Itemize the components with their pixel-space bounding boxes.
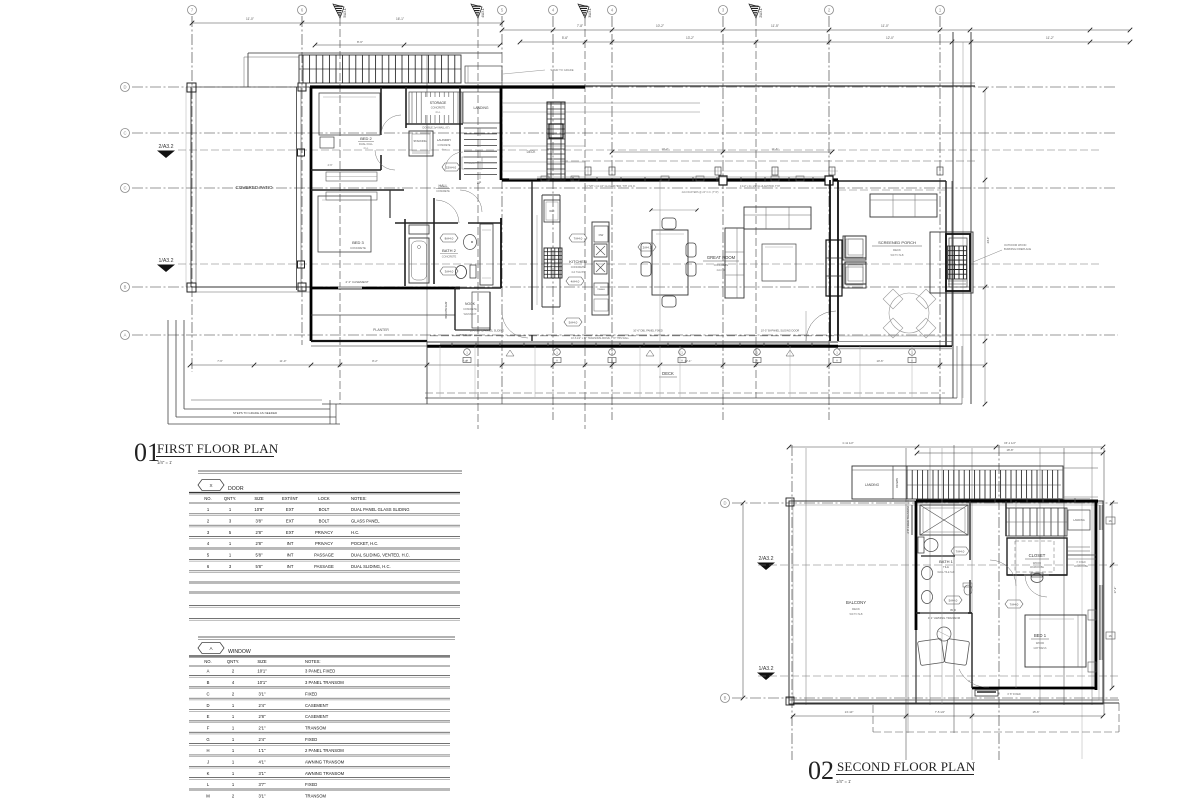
- svg-text:FIRST FLOOR PLAN: FIRST FLOOR PLAN: [157, 441, 279, 456]
- sf interior stair landing: [1068, 510, 1090, 530]
- svg-text:WARDROBE: WARDROBE: [1074, 565, 1088, 568]
- porch sofa: [870, 194, 937, 217]
- window schedule table: [198, 636, 455, 638]
- svg-text:16'-0 5/8" BI-PANEL SLIDING: 16'-0 5/8" BI-PANEL SLIDING: [470, 329, 504, 333]
- bed2 nightstand: [320, 137, 334, 148]
- sf west window strip: [911, 505, 913, 535]
- landing room: [459, 87, 461, 180]
- bath2 north wall: [395, 222, 458, 224]
- svg-text:D: D: [723, 501, 726, 506]
- svg-text:EXT: EXT: [286, 507, 295, 512]
- svg-text:K: K: [207, 771, 210, 776]
- svg-text:4'1": 4'1": [259, 760, 266, 765]
- sf bath sinks: [922, 567, 933, 580]
- svg-text:BALCONY: BALCONY: [846, 600, 866, 605]
- stacking laundry: [409, 131, 433, 156]
- svg-text:CONCRETE: CONCRETE: [431, 106, 446, 110]
- svg-text:13'-10": 13'-10": [845, 710, 854, 714]
- patio post grid6 bottom: [298, 283, 306, 291]
- window door tags south: [464, 349, 471, 356]
- svg-text:EXT/INT: EXT/INT: [282, 496, 298, 501]
- svg-text:7'-0": 7'-0": [462, 359, 468, 363]
- svg-text:BATH 1: BATH 1: [939, 559, 953, 564]
- svg-text:C: C: [123, 131, 126, 136]
- svg-text:15/A4.0: 15/A4.0: [446, 165, 457, 169]
- sf bath hex 7: [951, 547, 969, 555]
- dimension line top long: [520, 41, 1130, 43]
- svg-text:BOLT: BOLT: [319, 507, 330, 512]
- svg-text:A: A: [124, 333, 127, 338]
- sf balcony posts: [786, 498, 794, 506]
- sf left dim line: [742, 503, 744, 698]
- svg-text:DOWN: DOWN: [895, 478, 899, 488]
- vertical grid line 4.5: [552, 16, 554, 420]
- svg-text:D: D: [123, 85, 126, 90]
- svg-text:16: 16: [1108, 519, 1112, 523]
- svg-text:5'8": 5'8": [256, 564, 263, 569]
- svg-text:SIZE: SIZE: [257, 659, 267, 664]
- svg-text:PASSAGE: PASSAGE: [314, 564, 334, 569]
- svg-text:10'-6": 10'-6": [876, 359, 883, 363]
- svg-text:02: 02: [808, 756, 834, 785]
- svg-text:BED 2: BED 2: [360, 136, 372, 141]
- svg-text:STACKING: STACKING: [413, 139, 426, 143]
- svg-text:5'-6": 5'-6": [562, 36, 568, 40]
- svg-text:FIXED: FIXED: [305, 737, 317, 742]
- svg-text:3'1": 3'1": [259, 794, 266, 799]
- storage stair hatch: [412, 92, 458, 124]
- planter strip: [311, 314, 455, 316]
- sf stair wall: [1005, 501, 1007, 536]
- section flag 2/A3.1: [749, 4, 760, 18]
- sf bottom door: [975, 690, 998, 696]
- svg-text:CONCRETE: CONCRETE: [442, 255, 457, 259]
- vertical grid line 6: [301, 16, 303, 345]
- south wall window mullions: [440, 343, 830, 345]
- steps to grade: [167, 320, 169, 424]
- svg-text:NOTES:: NOTES:: [351, 496, 367, 501]
- sf shower: [920, 505, 968, 535]
- svg-text:8'-2": 8'-2": [372, 359, 378, 363]
- svg-text:LAUNDRY: LAUNDRY: [437, 138, 451, 142]
- svg-text:W D: W D: [950, 608, 957, 612]
- svg-text:3'1": 3'1": [259, 771, 266, 776]
- svg-text:B: B: [724, 696, 727, 701]
- svg-text:11'-5": 11'-5": [771, 24, 779, 28]
- svg-text:TRANSOM: TRANSOM: [305, 794, 326, 799]
- svg-text:2' 8" FIXED TRANSOM: 2' 8" FIXED TRANSOM: [906, 506, 910, 533]
- svg-text:B: B: [124, 285, 127, 290]
- svg-text:DUAL PANEL GLASS SLIDING: DUAL PANEL GLASS SLIDING: [351, 507, 410, 512]
- svg-text:INT: INT: [287, 541, 294, 546]
- svg-text:16'-1": 16'-1": [396, 17, 404, 21]
- svg-text:NO.: NO.: [204, 496, 211, 501]
- door schedule table: [198, 470, 462, 472]
- sf bath partition: [921, 555, 955, 557]
- wall bed3 north: [311, 189, 404, 191]
- sectional sofa horizontal: [744, 207, 811, 229]
- post grid3: [719, 176, 727, 185]
- svg-text:WINDOW SEAT: WINDOW SEAT: [445, 301, 448, 319]
- svg-text:DECK: DECK: [662, 371, 674, 376]
- svg-text:WARDROBE: WARDROBE: [1030, 566, 1044, 569]
- great room south wall: [427, 345, 838, 348]
- svg-text:A: A: [681, 359, 683, 363]
- svg-text:BED 1: BED 1: [1034, 633, 1047, 638]
- svg-text:CLOSET: CLOSET: [1029, 553, 1046, 558]
- svg-text:13'-2": 13'-2": [686, 36, 694, 40]
- north wall left wing: [310, 85, 585, 88]
- sf sitting east wall: [971, 613, 973, 688]
- svg-text:NOOK: NOOK: [465, 302, 476, 306]
- vertical grid line 4: [611, 16, 613, 420]
- svg-text:11'-0": 11'-0": [246, 17, 254, 21]
- patio post top: [187, 83, 196, 92]
- svg-text:7/A4.0: 7/A4.0: [956, 549, 965, 553]
- svg-text:4/A4.0: 4/A4.0: [571, 279, 580, 283]
- svg-text:WOOD: WOOD: [1036, 641, 1044, 645]
- svg-text:LANDING: LANDING: [1073, 518, 1085, 522]
- svg-text:REF: REF: [549, 209, 555, 213]
- coffee table: [762, 244, 796, 281]
- svg-text:11'-0": 11'-0": [881, 24, 889, 28]
- sf top dimension line 2: [917, 452, 1103, 454]
- svg-text:2/A3.2: 2/A3.2: [759, 556, 774, 562]
- svg-text:M: M: [206, 794, 210, 799]
- svg-text:POCKET, H.C.: POCKET, H.C.: [351, 541, 378, 546]
- svg-text:7/A4.0: 7/A4.0: [574, 236, 583, 240]
- interior stair down: [464, 127, 497, 129]
- svg-text:3/A3.1: 3/A3.1: [588, 8, 592, 17]
- svg-text:17'-2": 17'-2": [1113, 587, 1117, 594]
- bath2 hex key 8: [440, 234, 458, 242]
- exterior stair hatch band: [299, 55, 461, 83]
- svg-text:2'8": 2'8": [259, 714, 266, 719]
- bath2 vanity: [480, 224, 493, 285]
- deck rail posts row: [585, 167, 591, 175]
- sf bath toilet: [918, 537, 924, 553]
- svg-text:A: A: [836, 359, 838, 363]
- bath2 hex key 3: [440, 267, 458, 275]
- svg-text:WINDOW: WINDOW: [228, 649, 251, 655]
- hall hex key: [442, 163, 460, 171]
- svg-text:A: A: [207, 669, 210, 674]
- svg-text:F: F: [207, 725, 210, 730]
- svg-text:SECOND FLOOR PLAN: SECOND FLOOR PLAN: [837, 759, 976, 774]
- svg-text:NO.: NO.: [204, 659, 211, 664]
- sf closet: [1007, 538, 1067, 575]
- svg-text:WAINSCOT: WAINSCOT: [464, 313, 477, 316]
- porch north wall: [838, 180, 946, 182]
- svg-text:QNTY.: QNTY.: [224, 496, 236, 501]
- patio post grid6 mid1: [298, 149, 305, 156]
- svg-text:SHELF: SHELF: [468, 163, 476, 165]
- svg-text:5/A4.0: 5/A4.0: [949, 598, 958, 602]
- sf extra verticals: [941, 448, 943, 705]
- svg-text:GREAT ROOM: GREAT ROOM: [707, 255, 736, 260]
- svg-text:CONCRETE: CONCRETE: [438, 145, 451, 147]
- sf right dim line: [1111, 503, 1113, 688]
- svg-text:LOCK: LOCK: [318, 496, 330, 501]
- svg-text:DUAL FULL: DUAL FULL: [359, 142, 373, 146]
- porch south wall: [838, 340, 952, 342]
- bed3 cabinet strip: [326, 192, 377, 200]
- svg-text:BED 3: BED 3: [352, 240, 364, 245]
- svg-text:FIXED: FIXED: [305, 782, 317, 787]
- extension line dining: [659, 180, 661, 341]
- sf closet door arc: [1025, 575, 1047, 597]
- svg-text:STORAGE: STORAGE: [430, 101, 447, 105]
- deck south edge: [425, 392, 945, 394]
- deck east edge: [952, 32, 954, 398]
- sf closet fixture: [1031, 574, 1043, 583]
- sf top dimension line: [789, 446, 1103, 448]
- post grid2: [825, 176, 833, 185]
- svg-text:1/A3.2: 1/A3.2: [759, 666, 774, 672]
- sf roof dashed outline: [873, 731, 1119, 733]
- svg-text:CONCRETE: CONCRETE: [571, 265, 586, 269]
- wall bath2 west: [404, 219, 406, 286]
- sf building north wall: [916, 500, 1098, 503]
- sf horizontal grid B: [732, 697, 1118, 699]
- svg-text:4'-6": 4'-6": [328, 164, 333, 167]
- svg-text:5/A4.0: 5/A4.0: [569, 320, 578, 324]
- svg-text:1/4" = 1': 1/4" = 1': [157, 460, 172, 465]
- svg-text:E: E: [207, 714, 210, 719]
- patio post bottom: [187, 283, 196, 292]
- svg-text:DECK: DECK: [527, 150, 537, 154]
- hall door arc: [375, 150, 395, 170]
- outdoor fireplace: [930, 232, 973, 293]
- deck west edge: [426, 341, 428, 404]
- svg-text:AWNING TRANSOM: AWNING TRANSOM: [305, 760, 345, 765]
- dimension line below full: [190, 364, 985, 366]
- exterior stair enclosure outline: [248, 52, 502, 54]
- svg-text:7'-5 1/2": 7'-5 1/2": [935, 710, 945, 714]
- sf interior stair: [1006, 508, 1067, 536]
- svg-text:PASSAGE: PASSAGE: [314, 553, 334, 558]
- svg-text:MATTRESS: MATTRESS: [1034, 647, 1047, 650]
- svg-text:INT: INT: [287, 553, 294, 558]
- trash: [594, 283, 608, 295]
- svg-text:4x10 RAFTERS @ 24" O.C. (TYP): 4x10 RAFTERS @ 24" O.C. (TYP): [682, 191, 719, 194]
- svg-text:5/A3.1: 5/A3.1: [343, 8, 347, 17]
- svg-text:10'-5" BI-PANEL SLIDING DOOR: 10'-5" BI-PANEL SLIDING DOOR: [761, 329, 800, 333]
- horizontal grid line D: [132, 86, 1115, 88]
- sf band rail extension: [1063, 467, 1098, 469]
- svg-text:7'-6": 7'-6": [217, 359, 223, 363]
- svg-text:X: X: [209, 483, 212, 488]
- svg-text:FIXED: FIXED: [305, 691, 317, 696]
- svg-text:A: A: [611, 359, 613, 363]
- svg-text:4'-7 5/8" x 11 1/4" GLULAM HDR: 4'-7 5/8" x 11 1/4" GLULAM HDR, TYP U.N.…: [584, 185, 635, 188]
- bath2 east wall: [500, 218, 502, 288]
- svg-text:5'8": 5'8": [256, 553, 263, 558]
- svg-text:1'1": 1'1": [259, 748, 266, 753]
- svg-text:HALL: HALL: [439, 184, 448, 188]
- deck north edge: [585, 85, 975, 87]
- svg-text:DUAL SLIDING, VENTED, H.C.: DUAL SLIDING, VENTED, H.C.: [351, 553, 410, 558]
- vertical grid line 2: [828, 16, 830, 420]
- hall south door arc: [502, 312, 528, 338]
- svg-text:SIZE: SIZE: [254, 496, 264, 501]
- extension line kitchen west wall: [531, 181, 533, 310]
- sf horizontal grid D: [732, 502, 1118, 504]
- patio post grid6 mid2: [298, 261, 305, 268]
- svg-text:2/A3.2: 2/A3.2: [159, 144, 174, 150]
- svg-text:10'-6 1/2" x 11" TRANSOMS ABOV: 10'-6 1/2" x 11" TRANSOMS ABOVE, TYP THI…: [571, 337, 630, 340]
- sf bed 1: [1025, 615, 1086, 667]
- great room south wall sill: [427, 340, 838, 342]
- svg-text:STEPS TO GRADE AS NEEDED: STEPS TO GRADE AS NEEDED: [233, 411, 278, 415]
- svg-text:C: C: [206, 691, 209, 696]
- svg-text:4' 4" CASEMENT: 4' 4" CASEMENT: [345, 280, 368, 284]
- bath2 door arc: [436, 200, 459, 223]
- bed 3 room: [318, 196, 371, 252]
- svg-text:CASEMENT: CASEMENT: [305, 714, 329, 719]
- north wall window tags: [541, 176, 549, 181]
- svg-text:4/A3.1: 4/A3.1: [481, 8, 485, 17]
- fridge: [544, 200, 560, 222]
- svg-text:BURNING FIREPLACE: BURNING FIREPLACE: [1004, 247, 1031, 251]
- south roof dashed: [430, 335, 838, 337]
- svg-text:A: A: [556, 359, 558, 363]
- sf balcony chairs: [917, 638, 944, 665]
- dimension line top left: [192, 22, 502, 24]
- porch screen dashes: [838, 335, 952, 337]
- svg-text:CONCRETE: CONCRETE: [463, 308, 477, 311]
- svg-text:G: G: [206, 737, 209, 742]
- svg-text:2'1": 2'1": [259, 725, 266, 730]
- sf balcony outline: [789, 501, 1103, 704]
- svg-text:DUAL SLIDING, H.C.: DUAL SLIDING, H.C.: [351, 564, 391, 569]
- door schedule empty rows: [189, 581, 460, 583]
- vertical line A: [426, 55, 428, 404]
- svg-text:2'4": 2'4": [259, 703, 266, 708]
- deck stair element: [547, 102, 565, 180]
- svg-text:C: C: [123, 186, 126, 191]
- svg-text:3 PANEL FIXED: 3 PANEL FIXED: [305, 669, 335, 674]
- svg-text:2'8": 2'8": [256, 530, 263, 535]
- vertical grid line 1: [939, 16, 941, 404]
- closet wall: [380, 87, 382, 135]
- media cabinet: [826, 240, 842, 296]
- sf building east wall: [1095, 501, 1098, 690]
- svg-text:2'4": 2'4": [259, 737, 266, 742]
- bathtub shelf: [409, 225, 429, 234]
- svg-text:4 t.o.: 4 t.o.: [363, 147, 369, 150]
- svg-text:4x4 TILE BS: 4x4 TILE BS: [571, 271, 585, 274]
- sf top stair band: [852, 466, 1063, 499]
- sink 1: [594, 244, 607, 257]
- svg-text:LANDING: LANDING: [865, 483, 880, 487]
- kitchen tile feature: [544, 248, 562, 278]
- svg-text:EXT: EXT: [286, 530, 295, 535]
- horizontal grid line A: [132, 334, 1118, 336]
- svg-text:AWNING TRANSOM: AWNING TRANSOM: [305, 771, 345, 776]
- bed2 cabinet strip: [326, 172, 377, 181]
- svg-text:SCREENED PORCH: SCREENED PORCH: [878, 240, 916, 245]
- sf wc: [964, 585, 972, 595]
- svg-text:8'-6": 8'-6": [357, 40, 363, 44]
- svg-text:H: H: [206, 748, 209, 753]
- vertical grid line 7: [191, 16, 193, 372]
- bath2 sink: [464, 235, 477, 250]
- svg-text:11'-2": 11'-2": [1046, 36, 1054, 40]
- deck extension lines: [439, 346, 441, 397]
- great room east wall: [829, 180, 831, 341]
- roof dashed line great room: [560, 160, 975, 162]
- great room door arc SE: [806, 311, 836, 341]
- svg-text:CASEMENT: CASEMENT: [305, 703, 329, 708]
- svg-text:NOTES:: NOTES:: [305, 659, 321, 664]
- svg-text:12'-1": 12'-1": [684, 359, 691, 363]
- sf hall door arc: [990, 560, 1016, 586]
- svg-text:2'8": 2'8": [256, 541, 263, 546]
- svg-text:BOLT: BOLT: [319, 518, 330, 523]
- svg-text:WD TO SLB: WD TO SLB: [890, 254, 903, 257]
- svg-text:TRASH: TRASH: [597, 288, 605, 291]
- svg-text:3 PANEL TRANSOM: 3 PANEL TRANSOM: [305, 680, 344, 685]
- svg-text:LANDING: LANDING: [473, 106, 488, 110]
- section flag 4/A3.1: [471, 4, 482, 18]
- interior dim lines great room: [612, 151, 832, 153]
- wall nook: [454, 288, 456, 330]
- dining chairs: [662, 218, 676, 229]
- vertical grid line 5: [501, 16, 503, 404]
- svg-text:CONCRETE: CONCRETE: [714, 263, 729, 267]
- svg-text:10'-6" DBL PANEL FIXED: 10'-6" DBL PANEL FIXED: [633, 329, 663, 333]
- svg-text:CONCRETE: CONCRETE: [436, 190, 450, 193]
- patio east edge: [296, 87, 298, 290]
- svg-text:DW: DW: [599, 233, 604, 237]
- great room north wall: [502, 178, 838, 181]
- svg-text:3'1": 3'1": [259, 691, 266, 696]
- svg-text:7/A4.0: 7/A4.0: [1010, 602, 1019, 606]
- svg-text:QNTY.: QNTY.: [227, 659, 239, 664]
- section flag 5/A3.1: [333, 4, 344, 18]
- svg-text:7' 7" FIXED: 7' 7" FIXED: [459, 333, 473, 337]
- svg-text:DECK: DECK: [893, 248, 901, 252]
- porch chair 1: [843, 236, 866, 260]
- sf hex keys: [944, 596, 962, 604]
- svg-text:8/A4.0: 8/A4.0: [445, 236, 454, 240]
- svg-text:3'8": 3'8": [256, 518, 263, 523]
- sf vertical grid lines: [791, 445, 793, 760]
- svg-text:2/A4.1: 2/A4.1: [643, 245, 652, 249]
- bathtub: [409, 238, 429, 283]
- svg-text:GLASS PANEL: GLASS PANEL: [351, 518, 380, 523]
- sf bottom balcony edge: [789, 699, 1119, 701]
- svg-text:KITCHEN: KITCHEN: [569, 259, 587, 264]
- outdoor fireplace leader: [973, 250, 1002, 262]
- horizontal grid line C5: [132, 132, 1115, 134]
- svg-text:2 PANEL TRANSOM: 2 PANEL TRANSOM: [305, 748, 344, 753]
- svg-text:OUTDOOR WOOD: OUTDOOR WOOD: [1004, 243, 1026, 247]
- storage room: [405, 87, 407, 128]
- svg-text:DOUBLE 2x4 WALL (6"): DOUBLE 2x4 WALL (6"): [423, 127, 450, 130]
- patio dim line left: [185, 87, 187, 287]
- svg-text:DOOR: DOOR: [228, 486, 244, 492]
- porch east wall: [945, 181, 947, 346]
- dining table: [652, 230, 688, 295]
- svg-text:16: 16: [1108, 634, 1112, 638]
- lounge chair 2: [845, 262, 866, 284]
- sf building west wall: [915, 501, 918, 630]
- svg-text:2'-0": 2'-0": [969, 680, 974, 683]
- south wall left wing: [311, 287, 460, 290]
- dimension line top inner: [315, 44, 500, 46]
